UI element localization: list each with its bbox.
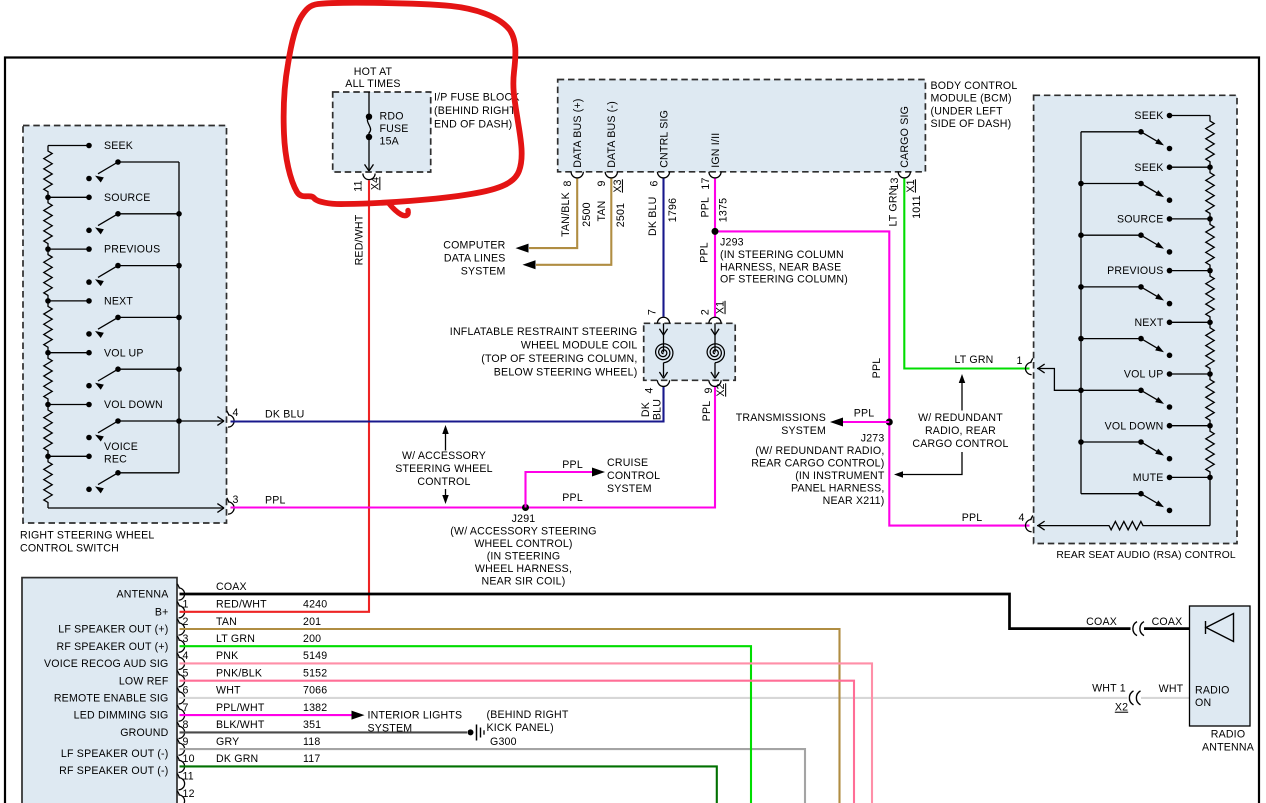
svg-text:PPL: PPL [265,495,286,507]
svg-text:CARGO CONTROL: CARGO CONTROL [912,438,1008,450]
svg-text:LF SPEAKER OUT (+): LF SPEAKER OUT (+) [58,624,168,636]
svg-text:5: 5 [183,668,189,680]
svg-text:REC: REC [104,453,127,465]
svg-text:RIGHT STEERING WHEEL: RIGHT STEERING WHEEL [20,530,154,542]
svg-text:10: 10 [183,753,195,765]
svg-text:J291: J291 [512,513,536,525]
svg-text:2500: 2500 [581,202,593,226]
svg-text:CONTROL SWITCH: CONTROL SWITCH [20,543,119,555]
svg-text:RF SPEAKER OUT (+): RF SPEAKER OUT (+) [56,641,168,653]
svg-text:RED/WHT: RED/WHT [353,214,365,265]
svg-text:1375: 1375 [717,198,729,222]
svg-text:9: 9 [596,180,608,186]
svg-text:PPL: PPL [854,407,875,419]
svg-text:WHT: WHT [1159,683,1184,695]
svg-text:RF SPEAKER OUT (-): RF SPEAKER OUT (-) [59,765,168,777]
svg-text:SEEK: SEEK [104,140,133,152]
svg-text:LOW REF: LOW REF [119,675,169,687]
svg-text:DK BLU: DK BLU [265,409,304,421]
svg-text:CNTRL SIG: CNTRL SIG [658,110,670,168]
svg-text:(BEHIND RIGHT: (BEHIND RIGHT [434,105,516,117]
svg-text:G300: G300 [490,736,517,748]
svg-text:VOL DOWN: VOL DOWN [104,399,163,411]
svg-text:LED DIMMING SIG: LED DIMMING SIG [74,710,169,722]
svg-text:DATA BUS (+): DATA BUS (+) [572,98,584,167]
svg-text:SEEK: SEEK [1134,162,1163,174]
svg-text:COAX: COAX [1152,616,1183,628]
svg-text:WHEEL MODULE COIL: WHEEL MODULE COIL [521,339,638,351]
svg-text:PPL: PPL [701,401,713,422]
svg-text:2501: 2501 [615,203,627,227]
svg-text:117: 117 [303,753,321,765]
svg-text:RDO: RDO [380,111,404,123]
svg-text:PPL: PPL [562,459,583,471]
svg-text:BLK/WHT: BLK/WHT [216,719,265,731]
svg-text:PNK/BLK: PNK/BLK [216,668,262,680]
svg-text:1: 1 [183,599,189,611]
svg-text:NEXT: NEXT [1134,317,1163,329]
svg-text:(W/ REDUNDANT RADIO,: (W/ REDUNDANT RADIO, [755,445,884,457]
svg-text:12: 12 [183,788,195,800]
svg-text:7: 7 [183,702,189,714]
svg-text:DK: DK [640,402,652,417]
svg-text:ON: ON [1195,697,1211,709]
svg-text:INFLATABLE RESTRAINT STEERING: INFLATABLE RESTRAINT STEERING [450,326,638,338]
svg-text:PPL: PPL [700,197,712,218]
svg-text:15A: 15A [380,136,400,148]
svg-text:SIDE OF DASH): SIDE OF DASH) [931,118,1012,130]
svg-text:118: 118 [303,736,321,748]
svg-text:4: 4 [644,387,656,393]
svg-text:X4: X4 [369,177,381,190]
svg-text:LT GRN: LT GRN [216,633,255,645]
svg-text:TAN: TAN [216,616,237,628]
svg-text:VOICE RECOG AUD SIG: VOICE RECOG AUD SIG [44,658,168,670]
svg-text:CRUISE: CRUISE [607,457,648,469]
svg-text:5152: 5152 [303,668,327,680]
svg-text:SYSTEM: SYSTEM [461,266,506,278]
svg-text:4: 4 [1019,512,1025,524]
svg-text:GRY: GRY [216,736,239,748]
svg-text:GROUND: GROUND [120,727,168,739]
svg-text:ANTENNA: ANTENNA [116,589,169,601]
svg-text:SOURCE: SOURCE [104,192,151,204]
svg-text:7: 7 [647,309,659,315]
svg-text:11: 11 [352,180,364,191]
svg-text:LT GRN: LT GRN [887,187,899,226]
svg-text:X2: X2 [1115,702,1128,714]
svg-text:LT GRN: LT GRN [954,354,993,366]
svg-text:W/ REDUNDANT: W/ REDUNDANT [918,412,1003,424]
svg-text:CONTROL: CONTROL [607,470,660,482]
svg-text:MODULE (BCM): MODULE (BCM) [931,93,1012,105]
svg-text:PPL/WHT: PPL/WHT [216,702,265,714]
svg-text:PPL: PPL [962,512,983,524]
svg-text:4: 4 [233,407,239,419]
svg-text:REAR SEAT AUDIO (RSA) CONTROL: REAR SEAT AUDIO (RSA) CONTROL [1056,550,1235,561]
svg-text:KICK PANEL): KICK PANEL) [487,722,554,734]
svg-text:SYSTEM: SYSTEM [368,723,413,735]
svg-text:VOICE: VOICE [104,441,138,453]
svg-text:351: 351 [303,719,321,731]
svg-text:WHT 1: WHT 1 [1092,683,1126,695]
svg-text:CARGO SIG: CARGO SIG [899,106,911,168]
svg-text:J293: J293 [720,236,744,248]
svg-text:201: 201 [303,616,321,628]
svg-text:BLU: BLU [651,399,663,420]
svg-text:LF SPEAKER OUT (-): LF SPEAKER OUT (-) [61,748,169,760]
svg-text:3: 3 [183,633,189,645]
svg-text:I/P FUSE BLOCK: I/P FUSE BLOCK [434,91,520,103]
svg-text:J273: J273 [861,433,885,445]
svg-text:SYSTEM: SYSTEM [781,425,826,437]
svg-text:B+: B+ [155,606,169,618]
svg-text:OF STEERING COLUMN): OF STEERING COLUMN) [720,274,848,286]
svg-text:9: 9 [703,387,715,393]
svg-text:VOL UP: VOL UP [104,347,144,359]
svg-text:END OF DASH): END OF DASH) [434,118,512,130]
svg-text:9: 9 [183,736,189,748]
svg-text:PREVIOUS: PREVIOUS [104,244,160,256]
svg-text:1382: 1382 [303,702,327,714]
svg-text:8: 8 [562,180,574,186]
svg-text:DATA BUS (-): DATA BUS (-) [606,101,618,168]
svg-text:(IN INSTRUMENT: (IN INSTRUMENT [795,470,885,482]
svg-text:HARNESS, NEAR BASE: HARNESS, NEAR BASE [720,261,841,273]
svg-text:4: 4 [183,650,189,662]
svg-text:(TOP OF STEERING COLUMN,: (TOP OF STEERING COLUMN, [481,353,637,365]
svg-text:CONTROL: CONTROL [417,476,470,488]
svg-text:2: 2 [183,616,189,628]
svg-text:WHEEL HARNESS,: WHEEL HARNESS, [475,563,572,575]
svg-text:ALL TIMES: ALL TIMES [345,78,400,90]
svg-text:INTERIOR LIGHTS: INTERIOR LIGHTS [368,710,463,722]
svg-text:X2: X2 [715,383,727,396]
svg-text:RADIO, REAR: RADIO, REAR [925,425,996,437]
svg-text:4240: 4240 [303,599,327,611]
svg-text:MUTE: MUTE [1133,472,1164,484]
svg-text:2: 2 [699,309,711,315]
svg-text:RADIO: RADIO [1211,728,1246,740]
svg-text:1: 1 [1017,355,1023,367]
svg-text:17: 17 [700,177,712,189]
svg-text:TAN/BLK: TAN/BLK [560,192,572,237]
svg-text:DK BLU: DK BLU [647,197,659,236]
svg-text:RADIO: RADIO [1195,685,1230,697]
svg-text:TAN: TAN [596,200,608,221]
svg-text:WHT: WHT [216,685,241,697]
svg-text:PNK: PNK [216,650,238,662]
svg-text:HOT AT: HOT AT [354,66,393,78]
svg-text:IGN I/II: IGN I/II [710,133,722,168]
svg-text:RED/WHT: RED/WHT [216,599,267,611]
svg-text:200: 200 [303,633,321,645]
svg-text:X1: X1 [715,301,727,314]
svg-text:SYSTEM: SYSTEM [607,483,652,495]
svg-text:6: 6 [648,180,660,186]
svg-text:REAR CARGO CONTROL): REAR CARGO CONTROL) [751,458,884,470]
svg-text:1796: 1796 [667,198,679,222]
svg-text:(IN STEERING COLUMN: (IN STEERING COLUMN [720,249,844,261]
svg-text:BODY CONTROL: BODY CONTROL [931,80,1018,92]
svg-text:5149: 5149 [303,650,327,662]
svg-text:VOL DOWN: VOL DOWN [1105,420,1164,432]
svg-text:3: 3 [233,494,239,506]
svg-text:BELOW STEERING WHEEL): BELOW STEERING WHEEL) [494,366,638,378]
svg-text:PPL: PPL [562,492,583,504]
svg-text:6: 6 [183,685,189,697]
svg-text:ANTENNA: ANTENNA [1202,741,1255,753]
svg-text:COMPUTER: COMPUTER [443,240,505,252]
svg-text:SOURCE: SOURCE [1117,214,1164,226]
svg-text:FUSE: FUSE [380,123,409,135]
svg-text:DATA LINES: DATA LINES [444,253,506,265]
svg-text:NEXT: NEXT [104,296,133,308]
svg-text:1011: 1011 [911,195,923,219]
svg-text:PPL: PPL [871,358,883,379]
svg-text:X1: X1 [905,179,917,192]
svg-text:COAX: COAX [216,581,247,593]
svg-text:(W/ ACCESSORY STEERING: (W/ ACCESSORY STEERING [450,526,596,538]
svg-text:X3: X3 [612,179,624,192]
svg-text:(IN STEERING: (IN STEERING [487,551,561,563]
svg-text:(BEHIND RIGHT: (BEHIND RIGHT [487,709,569,721]
svg-text:COAX: COAX [1086,616,1117,628]
svg-text:PPL: PPL [698,242,710,263]
svg-text:DK GRN: DK GRN [216,753,258,765]
svg-text:W/ ACCESSORY: W/ ACCESSORY [402,450,486,462]
svg-text:8: 8 [183,719,189,731]
svg-text:PANEL HARNESS,: PANEL HARNESS, [791,483,884,495]
svg-text:VOL UP: VOL UP [1124,369,1164,381]
svg-text:11: 11 [183,771,194,783]
svg-text:SEEK: SEEK [1134,110,1163,122]
svg-text:STEERING WHEEL: STEERING WHEEL [395,463,493,475]
svg-text:WHEEL CONTROL): WHEEL CONTROL) [474,538,572,550]
svg-text:PREVIOUS: PREVIOUS [1107,265,1163,277]
svg-text:NEAR SIR COIL): NEAR SIR COIL) [481,576,565,588]
svg-text:TRANSMISSIONS: TRANSMISSIONS [736,412,826,424]
svg-text:(UNDER LEFT: (UNDER LEFT [931,105,1004,117]
svg-text:7066: 7066 [303,685,327,697]
svg-text:NEAR X211): NEAR X211) [823,495,885,507]
svg-text:REMOTE ENABLE SIG: REMOTE ENABLE SIG [54,693,169,705]
